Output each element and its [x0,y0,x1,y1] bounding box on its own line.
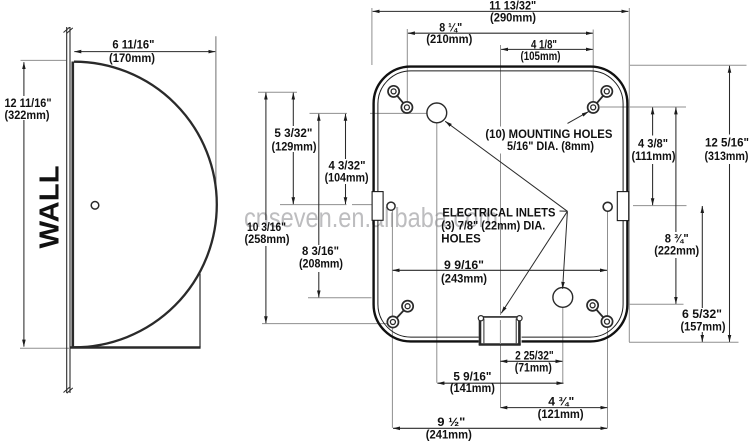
dim line 4 3/32 [345,114,347,159]
left side mounting hole [387,202,395,210]
svg-text:(222mm): (222mm) [654,245,699,258]
top-right mounting holes hole a outer [601,86,612,97]
wall break mark top [64,27,73,33]
ext line top hole row left [258,91,297,93]
bottom-right mounting holes hole b inner [590,303,595,308]
svg-text:9 9/16": 9 9/16" [444,259,484,272]
right side tab [617,192,628,221]
conduit centerline [499,320,501,344]
svg-text:(210mm): (210mm) [426,33,472,46]
electrical inlet bottom-right [553,288,573,308]
svg-text:5/16" DIA. (8mm): 5/16" DIA. (8mm) [507,140,594,153]
conduit screw right [517,316,522,321]
svg-text:(104mm): (104mm) [325,172,369,185]
svg-text:(157mm): (157mm) [681,320,726,333]
dim line 12 11/16 height [23,62,25,96]
svg-text:4 ¾": 4 ¾" [548,396,574,409]
wall break mark bottom [64,387,73,393]
wall line outer [66,27,68,393]
top-left mounting holes hole a outer [388,86,399,97]
dim line 8 3/4 [675,107,677,232]
bottom-left mounting holes hole b outer [402,301,413,312]
svg-text:8 ¾": 8 ¾" [665,232,689,245]
ext line right inner hole column [592,30,594,102]
dim line 9 1/2 [393,427,607,429]
svg-text:WALL: WALL [34,166,65,249]
ext line lower inlet row left [308,297,372,299]
svg-text:(141mm): (141mm) [450,382,495,395]
ext line center row left b [352,204,372,206]
ext line bottom inner hole row right [629,303,684,305]
svg-text:(3) 7/8" (22mm) DIA.: (3) 7/8" (22mm) DIA. [441,220,545,233]
conduit screw left [478,316,483,321]
dim line 4 3/4 [500,407,607,409]
bottom-right mounting holes hole a outer [601,316,612,327]
bottom-right mounting holes hole a inner [605,319,610,324]
ext line left inner hole column [406,29,408,101]
ext line plate centerline vertical upper [500,45,502,127]
dryer cover arc (side view) [74,62,217,348]
ext line top of dryer (left view) [21,59,67,61]
dim line 12 5/16 [729,66,731,135]
ext line inlet row left b [370,112,427,114]
conduit left border [479,317,482,345]
ext line center row left a [280,204,347,206]
plate inner edge [378,71,623,337]
ext line plate right edge [628,8,630,342]
svg-text:4 3/32": 4 3/32" [329,159,366,172]
ext line plate left edge up [371,8,373,65]
leader tick from ELECTRICAL INLETS [560,210,568,212]
ext line bottom of dryer (left view) [20,347,69,349]
svg-text:(258mm): (258mm) [245,233,290,246]
dryer bottom edge (side view) [70,346,201,348]
conduit inner right line [515,319,517,344]
dim line 9 9/16 [393,269,607,271]
top-left mounting holes hole a inner [391,89,396,94]
top-left mounting holes connector [394,91,407,107]
svg-text:8 3/16": 8 3/16" [302,245,339,258]
svg-text:(241mm): (241mm) [426,429,472,441]
ext line right inlet column [562,308,564,383]
electrical inlet top-left [427,103,447,123]
dim line 8 3/16 [318,114,320,245]
conduit right border [518,317,521,345]
leader to conduit [501,211,567,313]
dim line 8 1/4 [408,32,593,34]
bottom-right mounting holes hole b outer [587,300,598,311]
dim line 2 25/32 [500,360,562,362]
ext line bottom hole row left [262,323,389,325]
top-left mounting holes hole b inner [404,105,409,110]
svg-text:9 ½": 9 ½" [437,416,465,429]
leader to bottom-right inlet [563,211,568,288]
dim line 5 3/32 [292,93,294,126]
ext line right outer hole column [607,212,609,428]
dim line 6 11/16 depth [74,51,215,53]
svg-text:(71mm): (71mm) [515,362,552,375]
dryer front lower edge (side view) [199,274,201,348]
svg-text:12 11/16": 12 11/16" [5,97,52,110]
ext line plate bottom edge right [629,341,739,343]
conduit inner left line [483,319,485,344]
top-right mounting holes hole a inner [604,89,609,94]
svg-text:(121mm): (121mm) [538,408,584,421]
dryer back plate (side view) [72,62,75,349]
dim line 11 13/32 width [373,10,629,12]
svg-text:6 11/16": 6 11/16" [112,38,154,51]
top-right mounting holes hole b outer [588,102,599,113]
ext line left inlet column [436,123,438,383]
svg-text:(313mm): (313mm) [705,150,749,163]
svg-text:(322mm): (322mm) [5,109,50,122]
plate outer edge [374,67,628,342]
leader to top-left inlet [445,121,567,211]
dim line 4 3/8 [652,107,654,135]
leader to mounting hole [568,112,589,124]
svg-text:5 3/32": 5 3/32" [274,127,312,140]
dim line 10 3/16 [265,93,267,220]
conduit bottom border [479,343,521,346]
left side tab [372,192,383,221]
right side mounting hole [603,202,612,211]
dim line 4 1/8 [501,48,593,50]
conduit top border [483,316,518,318]
svg-text:ELECTRICAL INLETS: ELECTRICAL INLETS [442,207,555,220]
top-right mounting holes hole b inner [591,105,596,110]
dim line 6 5/32 [701,206,703,308]
conduit knockout body [479,316,522,345]
svg-text:12 5/16": 12 5/16" [705,137,749,150]
ext line top inner hole row right [600,106,686,108]
bottom-right mounting holes connector [593,305,607,321]
ext line center row right [633,205,687,207]
ext line plate top edge right [630,64,747,66]
bottom-left mounting holes hole b inner [405,304,410,309]
bottom-left mounting holes hole a inner [390,320,395,325]
svg-text:4 3/8": 4 3/8" [638,137,668,150]
top-left mounting holes hole b outer [401,102,412,113]
svg-text:HOLES: HOLES [441,232,481,245]
svg-text:(208mm): (208mm) [299,258,343,271]
top-right mounting holes connector [593,91,607,107]
svg-text:(111mm): (111mm) [632,150,676,163]
ext line inlet row left a [310,112,348,114]
wall line inner [69,27,71,393]
dim line 5 9/16 [437,382,563,384]
svg-text:2 25/32": 2 25/32" [515,349,554,362]
svg-text:(243mm): (243mm) [441,272,487,285]
svg-text:(290mm): (290mm) [490,12,536,25]
svg-text:(105mm): (105mm) [521,50,561,63]
ext line left outer hole column [391,211,393,428]
svg-text:(170mm): (170mm) [109,52,155,65]
bottom-left mounting holes hole a outer [387,316,398,327]
svg-text:(129mm): (129mm) [272,140,317,153]
button hole on side view [91,202,99,210]
svg-text:6 5/32": 6 5/32" [682,308,722,321]
bottom-left mounting holes connector [393,306,408,322]
ext line plate centerline vertical lower [500,320,502,407]
ext line front of dryer (left view) [215,36,217,188]
